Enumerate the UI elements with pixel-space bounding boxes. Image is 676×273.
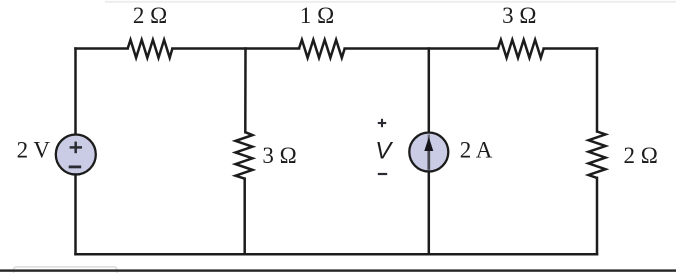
wire: right branch upper [596, 49, 599, 132]
svg-text:2 A: 2 A [460, 137, 493, 162]
svg-text:2 Ω: 2 Ω [624, 143, 658, 168]
wire: current-source branch upper [428, 49, 431, 134]
wire: current-source branch lower [428, 172, 431, 255]
wire: bottom rail [76, 253, 598, 256]
svg-text:V: V [375, 138, 393, 165]
wire: top rail left segment [76, 47, 128, 50]
wire: middle 3Ω branch lower [243, 179, 246, 255]
svg-text:2 Ω: 2 Ω [133, 3, 167, 28]
wire: top rail between 2Ω and 1Ω [172, 47, 299, 50]
svg-text:1 Ω: 1 Ω [300, 3, 334, 28]
wire: right branch lower [596, 178, 599, 254]
node voltage annotation − [378, 173, 387, 175]
wire: top rail between 1Ω and 3Ω [345, 47, 498, 50]
svg-text:3 Ω: 3 Ω [502, 3, 536, 28]
resistor 2Ω (top left) [128, 40, 173, 58]
svg-text:3 Ω: 3 Ω [262, 143, 296, 168]
wire: middle 3Ω branch upper [244, 49, 247, 133]
current source 2A [409, 133, 448, 172]
node voltage annotation + [378, 122, 386, 124]
voltage source 2V [56, 135, 96, 175]
wire: left branch upper [74, 49, 77, 135]
resistor 3Ω (top right) [498, 40, 544, 58]
resistor 3Ω (middle branch) [236, 132, 253, 178]
resistor 2Ω (right branch) [589, 132, 606, 178]
resistor 1Ω (top middle) [299, 40, 345, 58]
wire: left branch lower [74, 175, 77, 255]
svg-text:2 V: 2 V [17, 137, 51, 162]
wire: top rail right segment [544, 47, 597, 50]
